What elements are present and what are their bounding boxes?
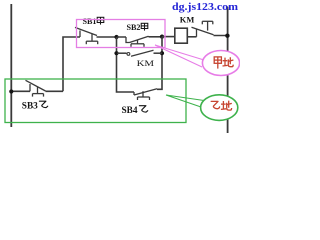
svg-text:SB1: SB1 [83, 16, 97, 26]
node junction on left rail [9, 89, 13, 93]
label SB4乙 [122, 105, 148, 115]
box location A (pink frame) [77, 20, 166, 48]
svg-text:dg.js123.com: dg.js123.com [172, 2, 239, 13]
svg-text:SB4: SB4 [122, 105, 139, 115]
wire node2 dropper down to KM row and SB4 row [157, 37, 162, 90]
node KM row left junction dot [114, 51, 118, 55]
svg-text:KM: KM [137, 58, 155, 68]
wire SB3 to riser [46, 90, 64, 92]
node 1 junction dot [114, 35, 118, 39]
wire node2 to KM coil [162, 36, 175, 38]
wire node1 dropper down to KM row and SB4 row [117, 37, 135, 92]
svg-text:KM: KM [180, 15, 195, 25]
pushbutton SB3乙 (NC stop, location B) [26, 80, 46, 96]
wire SB2 to node 2 [149, 36, 163, 38]
pushbutton SB1甲 (NC stop, location A) [75, 27, 98, 44]
pushbutton SB4乙 (NO start, location B) [134, 89, 157, 100]
node 2 junction dot [160, 35, 164, 39]
callout ellipse 乙地 (location B) [201, 95, 238, 121]
label 甲地 (red) [214, 57, 233, 69]
label SB2甲 [127, 22, 148, 32]
svg-text:SB3: SB3 [22, 100, 39, 110]
wire SB1 to node 1 [97, 36, 117, 38]
callout ellipse 甲地 (location A) [202, 51, 239, 76]
coil KM (contactor coil) [175, 28, 188, 43]
wire riser from SB3 row up to SB1 row [63, 37, 80, 91]
pushbutton stop (NC, right) [192, 21, 228, 37]
node KM row right junction dot [160, 51, 164, 55]
box location B (green frame) [5, 79, 186, 123]
contact KM auxiliary (NO self-holding) [117, 50, 162, 56]
wire right power rail L2 [227, 7, 229, 134]
label 乙地 (red) [211, 101, 232, 111]
wire coil to stop button [187, 36, 196, 38]
callout tail for 甲地 [155, 45, 204, 67]
wire SB3 row from rail to SB3 [11, 90, 30, 92]
callout tail for 乙地 [166, 95, 204, 107]
label SB1甲 [83, 16, 104, 26]
svg-text:SB2: SB2 [127, 22, 141, 32]
label SB3乙 [22, 100, 48, 110]
wire left power rail L1 [10, 4, 12, 127]
node junction on right rail [225, 34, 229, 38]
pushbutton SB2甲 (NO start, location A) [117, 36, 149, 47]
